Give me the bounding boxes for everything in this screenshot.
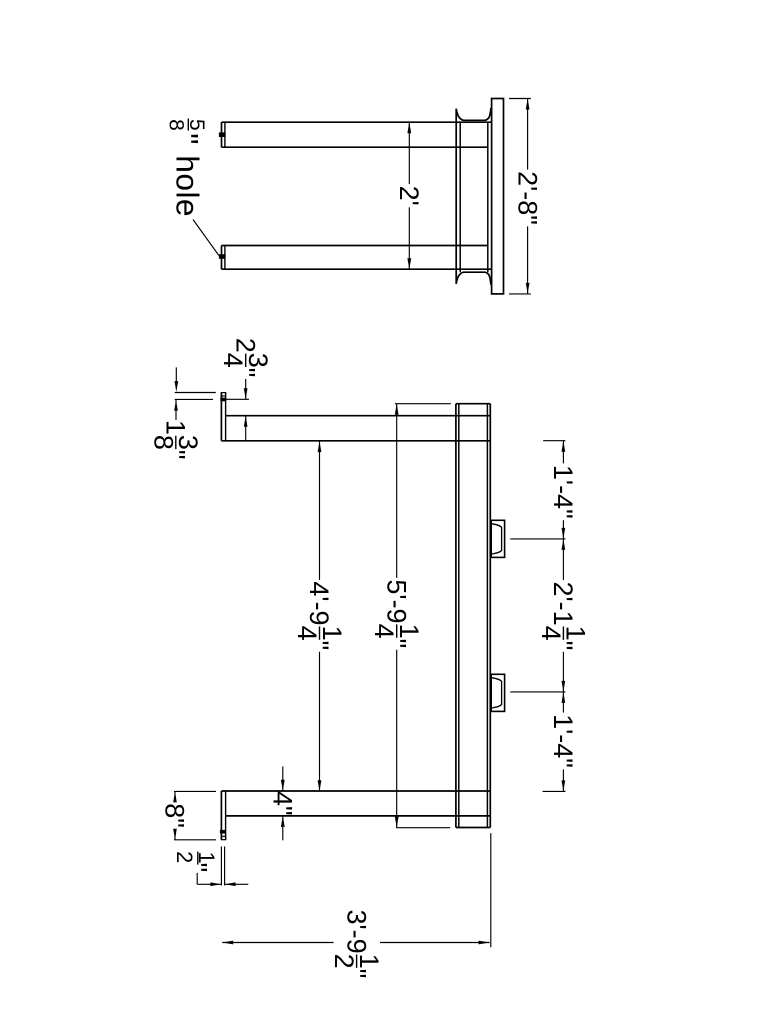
svg-text:2: 2 xyxy=(329,954,359,969)
dimension 1ft-4in upper arrowheads xyxy=(562,441,566,452)
svg-text:4: 4 xyxy=(268,791,298,806)
dimension 2ft-1-1/4 arrowheads xyxy=(562,539,566,550)
svg-text:2': 2' xyxy=(394,186,424,206)
dimension 1ft-4in lower arrowheads xyxy=(562,692,566,703)
dimension 1-3/8 extension line bottom xyxy=(175,398,213,400)
dimension 5ft-9-1/4 extension line bottom xyxy=(396,827,450,829)
dimension 8in line segments xyxy=(174,791,176,801)
dimension 2-3/4 lower stem and up arrow xyxy=(245,416,247,441)
svg-text:2'-8: 2'-8 xyxy=(512,171,542,215)
dimension 1-3/8 upper stem and down arrow xyxy=(175,367,177,381)
side view: upper arm end cap and pin edges xyxy=(220,393,222,441)
side view: lower arm top edge xyxy=(221,790,490,792)
label 5/8 inch hole: fraction bar xyxy=(187,119,189,131)
svg-text:8: 8 xyxy=(164,119,187,131)
svg-text:": " xyxy=(183,863,213,873)
svg-text:8: 8 xyxy=(148,435,178,450)
side view: column left inner edge xyxy=(458,404,460,828)
dimension 2-3/4 extension line at hole center xyxy=(227,398,250,400)
dimension 2ft-8in extension line top xyxy=(509,98,531,100)
right chain extension line at lower arm top xyxy=(543,790,566,792)
svg-text:": " xyxy=(169,133,205,144)
bottom arm (top view) end cap xyxy=(224,246,226,270)
dimension 1ft-4in lower: line segments xyxy=(562,692,564,713)
dimension 5ft-9-1/4 arrowhead up xyxy=(395,404,399,415)
svg-text:4'-9: 4'-9 xyxy=(304,581,334,625)
top view: column inner web line right xyxy=(487,122,489,272)
dimension 8in arrowheads xyxy=(173,791,177,802)
side view: upper arm top edge xyxy=(226,415,491,417)
svg-text:": " xyxy=(161,450,191,460)
dimension 1/2in right line xyxy=(225,883,249,885)
side view: upper pin hole mark xyxy=(220,398,226,402)
side view: lower arm bottom edge xyxy=(226,815,491,817)
svg-text:hole: hole xyxy=(169,155,205,217)
side view: upper clip inner lip xyxy=(492,524,502,554)
side view: column left outer edge xyxy=(455,404,457,828)
top view: column top flange with fillets xyxy=(456,108,491,120)
svg-text:4: 4 xyxy=(536,626,566,641)
dimension 3ft-9-1/2 fraction bar xyxy=(356,955,358,968)
dimension 1/2in left bend and line xyxy=(196,873,198,884)
top view: column bottom flange with fillets xyxy=(456,272,491,284)
dimension 2 ft between arms: line segments xyxy=(408,122,410,184)
svg-text:3'-9: 3'-9 xyxy=(341,910,371,954)
svg-text:4: 4 xyxy=(369,624,399,639)
side view: upper pin cap xyxy=(221,393,225,396)
dimension 1ft-4in upper: line segments xyxy=(562,441,564,464)
svg-text:8: 8 xyxy=(160,803,190,818)
side view: lower clip inner lip xyxy=(492,678,502,708)
side view: column right inner edge xyxy=(486,404,488,828)
bottom arm (top view) 5/8 inch hole mark xyxy=(219,254,226,259)
dimension 4ft-9-1/4 line segments xyxy=(319,441,321,580)
dimension 5ft-9-1/4 line segments xyxy=(396,404,398,578)
side view: column base line xyxy=(456,827,490,829)
side view: column right outer edge xyxy=(489,404,491,828)
dimension 2ft-8in arrowhead down xyxy=(526,283,530,294)
dimension 3ft-9-1/2 line segments xyxy=(222,942,333,944)
right chain extension line at upper clip xyxy=(510,538,565,540)
top view: upper arm end cap xyxy=(224,122,226,147)
dimension 2ft-8in line segments xyxy=(527,99,529,170)
svg-text:2: 2 xyxy=(230,338,260,353)
svg-text:": " xyxy=(512,215,542,225)
dimension 1/2in fraction bar xyxy=(197,852,199,865)
bottom arm (top view) outline xyxy=(222,245,488,247)
dimension 2 ft arrowhead down xyxy=(407,258,411,269)
top view: upper arm 5/8 inch hole mark xyxy=(219,132,226,137)
svg-text:1'-4: 1'-4 xyxy=(548,714,578,758)
svg-text:": " xyxy=(381,639,411,649)
top view: column flange outer edge line xyxy=(455,109,457,284)
svg-text:5: 5 xyxy=(185,119,208,131)
side view: lower pin hole mark xyxy=(220,830,226,834)
svg-text:": " xyxy=(268,806,298,816)
svg-text:": " xyxy=(160,818,190,828)
leader line from hole label to bottom arm hole xyxy=(193,220,219,256)
top view: column inner web line left xyxy=(459,122,461,272)
dimension 4in lower stem and up arrow xyxy=(282,816,284,840)
svg-text:": " xyxy=(548,641,578,651)
svg-text:": " xyxy=(548,758,578,768)
dimension 5ft-9-1/4 arrowhead down xyxy=(395,817,399,828)
dimension 3ft-9-1/2 arrowheads xyxy=(222,941,233,945)
dimension 2ft-8in arrowhead up xyxy=(526,99,530,110)
svg-text:2'-1: 2'-1 xyxy=(548,582,578,626)
svg-text:5'-9: 5'-9 xyxy=(381,579,411,623)
svg-text:2: 2 xyxy=(172,851,197,863)
svg-text:": " xyxy=(230,368,260,378)
svg-text:": " xyxy=(304,641,334,651)
svg-text:1: 1 xyxy=(161,420,191,435)
top view: back plate xyxy=(492,99,504,294)
dimension 2 ft arrowhead up xyxy=(407,122,411,133)
dimension 2-3/4 upper stem and down arrow xyxy=(245,379,247,399)
dimension 5ft-9-1/4 extension line top xyxy=(395,403,451,405)
svg-text:4: 4 xyxy=(292,626,322,641)
dimension 1-3/8 extension line top xyxy=(175,392,216,394)
dimension 8in extension line bottom xyxy=(174,839,216,841)
svg-text:4: 4 xyxy=(218,353,248,368)
dimension 2ft-1-1/4 line segments xyxy=(562,539,564,580)
side view: lower pin cap xyxy=(221,836,225,839)
dimension 3ft-9-1/2 right extension line xyxy=(490,833,492,947)
side view: lower clip outer xyxy=(491,674,504,711)
dimension 1-3/8 lower stem and up arrow xyxy=(175,400,177,420)
side view: column top edge xyxy=(456,403,490,405)
side view: upper arm bottom edge xyxy=(221,440,490,442)
right chain extension line at lower clip xyxy=(510,691,565,693)
side view: lower arm end cap and pin edges xyxy=(220,791,222,840)
top view: upper arm outline xyxy=(222,121,492,123)
side view: upper clip outer xyxy=(491,520,504,557)
dimension 4in upper stem and down arrow xyxy=(282,767,284,791)
dimension 1/2in extension lines xyxy=(220,847,222,886)
dimension 2ft-8in extension line bottom xyxy=(509,293,531,295)
svg-text:1'-4: 1'-4 xyxy=(548,465,578,509)
right chain extension line at arm bottom xyxy=(543,440,565,442)
dimension 4ft-9-1/4 arrowhead down xyxy=(318,780,322,791)
svg-text:": " xyxy=(548,509,578,519)
svg-text:": " xyxy=(341,969,371,979)
dimension 4ft-9-1/4 arrowhead up xyxy=(318,441,322,452)
dimension 8in extension line top xyxy=(174,790,216,792)
